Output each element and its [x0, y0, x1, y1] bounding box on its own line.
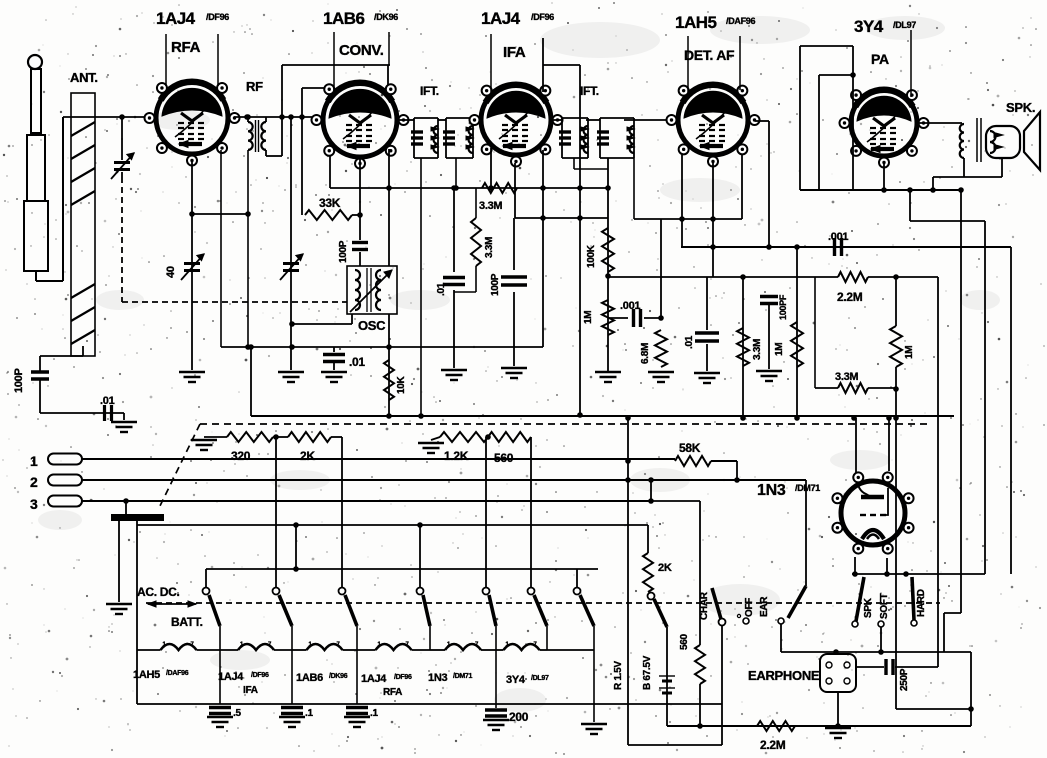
svg-text:2K: 2K: [300, 449, 315, 463]
svg-text:3Y4: 3Y4: [854, 17, 884, 36]
svg-text:PA: PA: [871, 51, 889, 67]
svg-text:100P: 100P: [13, 369, 25, 394]
svg-text:3Y4: 3Y4: [506, 674, 526, 686]
svg-text:1: 1: [30, 453, 38, 469]
svg-text:EARPHONE: EARPHONE: [748, 668, 820, 683]
svg-text:SPK.: SPK.: [1006, 100, 1035, 115]
svg-text:.1: .1: [305, 708, 313, 719]
svg-text:RFA: RFA: [383, 687, 402, 698]
svg-text:100K: 100K: [586, 244, 597, 268]
svg-text:3.3M: 3.3M: [752, 339, 763, 360]
svg-text:6.8M: 6.8M: [640, 343, 651, 364]
svg-text:/DK96: /DK96: [374, 12, 398, 22]
svg-text:BATT.: BATT.: [171, 615, 203, 629]
svg-text:1AJ4: 1AJ4: [156, 9, 196, 28]
svg-text:40: 40: [165, 266, 177, 278]
svg-text:IFT.: IFT.: [580, 84, 599, 98]
svg-text:IFT.: IFT.: [420, 84, 439, 98]
svg-text:100P: 100P: [338, 240, 349, 263]
svg-text:/DF96: /DF96: [251, 672, 269, 679]
svg-text:.001: .001: [828, 231, 848, 243]
svg-text:OSC: OSC: [358, 318, 386, 333]
svg-text:SPK: SPK: [863, 597, 874, 618]
svg-text:CONV.: CONV.: [339, 42, 384, 59]
svg-text:/DL97: /DL97: [893, 20, 916, 30]
svg-text:/DF96: /DF96: [531, 12, 554, 22]
svg-text:3: 3: [30, 496, 38, 512]
svg-text:560: 560: [679, 633, 690, 650]
svg-text:58K: 58K: [679, 441, 701, 455]
svg-text:320: 320: [231, 449, 251, 463]
svg-text:1AJ4: 1AJ4: [218, 671, 244, 683]
svg-text:200: 200: [509, 710, 529, 724]
svg-text:1AH5: 1AH5: [133, 669, 160, 681]
svg-text:OFF: OFF: [744, 598, 755, 617]
svg-text:RFA: RFA: [171, 39, 201, 56]
svg-text:1AJ4: 1AJ4: [481, 9, 521, 28]
svg-text:.01: .01: [684, 335, 695, 349]
svg-text:1N3: 1N3: [428, 672, 447, 684]
svg-text:AC. DC.: AC. DC.: [137, 585, 180, 599]
svg-text:100P: 100P: [490, 273, 501, 296]
svg-text:1M: 1M: [583, 311, 594, 324]
svg-text:3.3M: 3.3M: [484, 237, 495, 258]
svg-text:SOFT: SOFT: [879, 593, 890, 619]
svg-text:/DM71: /DM71: [453, 673, 473, 680]
svg-text:.001: .001: [620, 300, 640, 312]
svg-text:1M: 1M: [904, 346, 915, 359]
svg-text:2K: 2K: [658, 562, 672, 574]
svg-text:/DF96: /DF96: [394, 674, 412, 681]
svg-text:.01: .01: [436, 282, 447, 296]
svg-text:/DK96: /DK96: [329, 673, 348, 680]
svg-text:CHAR: CHAR: [699, 591, 710, 620]
svg-text:.01: .01: [349, 355, 365, 369]
svg-text:33K: 33K: [319, 196, 341, 210]
svg-text:.1: .1: [370, 708, 378, 719]
svg-text:.5: .5: [233, 708, 241, 719]
svg-text:2.2M: 2.2M: [837, 290, 863, 304]
svg-text:IFA: IFA: [243, 685, 258, 696]
svg-text:1AB6: 1AB6: [296, 672, 323, 684]
svg-text:/DM71: /DM71: [795, 483, 820, 493]
svg-text:B 67.5V: B 67.5V: [642, 655, 653, 690]
svg-text:100PF: 100PF: [778, 294, 788, 320]
svg-text:HARD: HARD: [916, 589, 927, 617]
svg-text:3.3M: 3.3M: [835, 371, 858, 383]
svg-text:EAR: EAR: [759, 596, 770, 617]
svg-text:/DF96: /DF96: [206, 12, 229, 22]
svg-text:10K: 10K: [396, 375, 407, 394]
svg-text:2: 2: [30, 474, 38, 490]
svg-text:1M: 1M: [774, 343, 785, 356]
svg-text:.01: .01: [100, 395, 115, 407]
svg-text:/DAF96: /DAF96: [166, 670, 189, 677]
svg-text:1N3: 1N3: [757, 482, 786, 499]
svg-text:2.2M: 2.2M: [760, 738, 786, 752]
svg-text:R 1.5V: R 1.5V: [613, 661, 624, 690]
svg-text:ANT.: ANT.: [70, 70, 98, 85]
svg-text:1AB6: 1AB6: [323, 9, 365, 28]
svg-text:RF: RF: [246, 79, 263, 94]
svg-text:IFA: IFA: [503, 44, 526, 61]
svg-text:/DL97: /DL97: [531, 675, 549, 682]
svg-text:1AJ4: 1AJ4: [361, 673, 387, 685]
svg-text:3.3M: 3.3M: [479, 200, 502, 212]
svg-text:1AH5: 1AH5: [675, 13, 717, 32]
svg-text:1.2K: 1.2K: [444, 449, 469, 463]
svg-text:560: 560: [494, 451, 514, 465]
svg-text:250P: 250P: [899, 668, 910, 691]
svg-text:/DAF96: /DAF96: [726, 16, 756, 26]
svg-text:DET. AF: DET. AF: [684, 47, 735, 63]
